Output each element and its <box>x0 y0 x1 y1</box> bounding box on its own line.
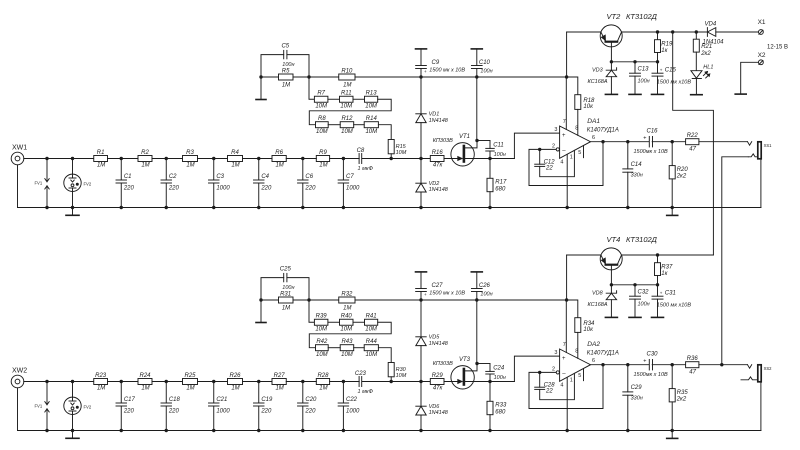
svg-text:220: 220 <box>304 408 316 414</box>
capacitor C21 1000 <box>213 382 215 404</box>
svg-text:1: 1 <box>570 154 573 160</box>
svg-text:1M: 1M <box>231 386 239 392</box>
svg-text:R32: R32 <box>341 292 353 298</box>
wire <box>330 158 360 160</box>
capacitor C18 220 <box>165 382 167 404</box>
resistor R13 10M <box>365 96 378 102</box>
svg-text:C11: C11 <box>493 143 504 149</box>
resistor R24 1M <box>138 379 152 385</box>
svg-text:1 мкФ: 1 мкФ <box>358 166 374 172</box>
capacitor C11 100н <box>477 140 490 142</box>
svg-text:1000: 1000 <box>216 408 230 414</box>
wire <box>108 158 139 160</box>
wire raw supply branch to channel 2 <box>673 32 714 255</box>
svg-text:VD5: VD5 <box>429 335 441 341</box>
svg-text:XW2: XW2 <box>12 368 27 375</box>
svg-text:C22: C22 <box>346 397 358 403</box>
svg-text:VD2: VD2 <box>429 181 440 187</box>
svg-text:47: 47 <box>689 146 696 152</box>
svg-text:C19: C19 <box>261 397 273 403</box>
svg-text:7: 7 <box>563 342 566 348</box>
svg-text:1N4148: 1N4148 <box>429 187 449 193</box>
arrester FV1 <box>46 382 48 405</box>
svg-text:FV1: FV1 <box>35 181 43 186</box>
svg-text:1500 мк х 10В: 1500 мк х 10В <box>429 291 465 297</box>
svg-text:C20: C20 <box>305 397 317 403</box>
diode VD5 1N4148 <box>420 300 422 337</box>
capacitor C27 1500 мк x 10В <box>416 271 427 273</box>
wire <box>108 381 139 383</box>
resistor R42 10M <box>316 345 329 351</box>
resistor R25 1M <box>183 379 198 385</box>
wire jack sleeve <box>760 159 762 208</box>
capacitor C23 1 мкФ <box>358 377 360 387</box>
svg-text:C18: C18 <box>169 397 181 403</box>
svg-text:C4: C4 <box>261 174 269 180</box>
terminal X2 <box>759 60 764 65</box>
wire <box>286 381 316 383</box>
svg-text:1M: 1M <box>231 163 239 169</box>
svg-text:VT4: VT4 <box>607 235 621 244</box>
svg-text:VD8: VD8 <box>592 291 604 297</box>
svg-text:5: 5 <box>578 150 581 156</box>
svg-text:100н: 100н <box>282 62 294 68</box>
svg-text:R23: R23 <box>95 373 107 379</box>
arrester FV1 <box>46 159 48 182</box>
svg-text:R7: R7 <box>317 91 325 97</box>
junction <box>120 206 123 209</box>
svg-text:R33: R33 <box>495 403 507 409</box>
svg-text:R3: R3 <box>186 150 194 156</box>
junction <box>488 429 491 432</box>
ground <box>72 208 74 215</box>
svg-text:1N4148: 1N4148 <box>429 410 449 416</box>
svg-text:100н: 100н <box>638 79 650 85</box>
wire <box>286 158 316 160</box>
svg-text:C32: C32 <box>638 290 650 296</box>
svg-text:1000: 1000 <box>346 408 360 414</box>
svg-text:C14: C14 <box>631 162 643 168</box>
capacitor C12 22 <box>539 149 541 164</box>
svg-text:КС168А: КС168А <box>588 79 608 85</box>
junction <box>419 429 422 432</box>
resistor R44 10M <box>364 345 378 351</box>
svg-text:1M: 1M <box>275 163 283 169</box>
svg-text:1M: 1M <box>282 82 290 88</box>
wire <box>152 381 183 383</box>
pin 7 <box>565 77 567 129</box>
capacitor C10 100н <box>471 48 482 50</box>
svg-text:4: 4 <box>560 159 563 165</box>
svg-text:100н: 100н <box>494 375 506 381</box>
resistor R4 1M <box>228 156 243 162</box>
transistor VT1 КП303В <box>451 143 474 166</box>
wire <box>72 192 74 208</box>
svg-text:R1: R1 <box>97 150 105 156</box>
svg-text:R17: R17 <box>495 180 507 186</box>
svg-text:R36: R36 <box>687 356 699 362</box>
svg-text:220: 220 <box>168 408 180 414</box>
svg-text:4: 4 <box>560 382 563 388</box>
capacitor C15 1500 мк x10В <box>657 62 659 73</box>
transistor VT3 КП303В <box>451 366 474 389</box>
resistor R2 1M <box>138 156 152 162</box>
wire <box>328 124 340 126</box>
svg-text:680: 680 <box>495 409 506 415</box>
ground <box>671 208 673 216</box>
svg-text:+: + <box>562 133 566 139</box>
node line <box>611 61 657 63</box>
junction <box>342 429 345 432</box>
resistor R35 2к2 <box>671 365 673 389</box>
svg-text:220: 220 <box>123 185 135 191</box>
svg-text:R8: R8 <box>318 116 326 122</box>
junction <box>212 429 215 432</box>
junction <box>257 429 260 432</box>
capacitor C22 1000 <box>342 382 344 404</box>
resistor R16 47к <box>430 156 444 162</box>
svg-text:100н: 100н <box>480 69 492 75</box>
svg-text:R26: R26 <box>229 373 241 379</box>
wire feedback loop <box>529 365 603 409</box>
diode VD2 1N4148 <box>420 159 422 184</box>
svg-text:C17: C17 <box>124 397 136 403</box>
wire jack sleeve <box>760 382 762 431</box>
svg-text:2: 2 <box>552 144 555 150</box>
svg-text:10M: 10M <box>365 352 377 358</box>
svg-text:1N4148: 1N4148 <box>429 118 449 124</box>
resistor R9 1M <box>316 156 329 162</box>
svg-text:1500мк х 10В: 1500мк х 10В <box>634 149 669 155</box>
svg-text:C24: C24 <box>493 366 505 372</box>
svg-text:C15: C15 <box>665 67 677 73</box>
svg-text:C23: C23 <box>355 371 367 377</box>
svg-text:R5: R5 <box>282 69 290 75</box>
wire <box>72 415 74 431</box>
LED HL1 <box>691 71 702 79</box>
svg-text:1M: 1M <box>343 305 351 311</box>
wire <box>328 321 340 323</box>
svg-text:+: + <box>643 359 646 365</box>
zener VD8 КС168А <box>610 285 612 293</box>
svg-text:3: 3 <box>554 127 557 133</box>
capacitor C13 100н <box>634 62 636 73</box>
svg-text:XS2: XS2 <box>764 366 773 371</box>
wire raw rail <box>567 254 601 256</box>
svg-text:R29: R29 <box>432 373 444 379</box>
svg-text:5: 5 <box>578 373 581 379</box>
svg-text:XS1: XS1 <box>764 143 773 148</box>
svg-text:VD6: VD6 <box>429 404 441 410</box>
resistor R21 2к2 <box>695 32 697 39</box>
svg-text:47: 47 <box>689 369 696 375</box>
svg-text:1500мк х 10В: 1500мк х 10В <box>634 372 669 378</box>
svg-text:VD1: VD1 <box>429 112 440 118</box>
svg-text:C9: C9 <box>432 60 440 66</box>
capacitor C9 1500 мк x 10В <box>416 48 427 50</box>
zener VD3 КС168А <box>610 62 612 70</box>
svg-text:22: 22 <box>545 166 553 172</box>
svg-text:10к: 10к <box>583 104 594 110</box>
svg-text:VT2: VT2 <box>607 12 622 21</box>
svg-text:7: 7 <box>563 119 566 125</box>
junction <box>671 429 674 432</box>
wire feedback loop <box>529 142 603 186</box>
svg-text:X2: X2 <box>758 52 766 59</box>
resistor R30 10M <box>388 363 394 377</box>
svg-text:FV2: FV2 <box>84 182 92 187</box>
svg-text:10M: 10M <box>365 103 377 109</box>
wire <box>378 348 391 363</box>
svg-text:220: 220 <box>260 185 272 191</box>
capacitor C20 220 <box>302 382 304 404</box>
svg-text:100н: 100н <box>494 152 506 158</box>
wire <box>198 381 228 383</box>
junction <box>165 206 168 209</box>
wire <box>652 141 685 143</box>
svg-text:220: 220 <box>304 185 316 191</box>
svg-text:DA1: DA1 <box>587 118 600 125</box>
svg-text:22: 22 <box>545 389 553 395</box>
svg-text:КС168А: КС168А <box>588 302 608 308</box>
arrester tube FV2 <box>72 382 74 398</box>
svg-text:C16: C16 <box>647 129 659 135</box>
wire <box>17 388 19 431</box>
resistor R39 10M <box>314 319 328 325</box>
pin 2 <box>540 371 557 373</box>
svg-text:VD4: VD4 <box>705 22 717 28</box>
wire <box>152 158 183 160</box>
svg-text:10M: 10M <box>365 326 377 332</box>
svg-text:+: + <box>643 136 646 142</box>
svg-text:220: 220 <box>123 408 135 414</box>
svg-text:680: 680 <box>495 186 506 192</box>
svg-text:47к: 47к <box>433 163 444 169</box>
svg-text:КП303В: КП303В <box>433 138 453 144</box>
resistor R12 10M <box>340 122 354 128</box>
svg-text:R10: R10 <box>341 69 353 75</box>
wire <box>699 141 748 143</box>
junction <box>419 206 422 209</box>
capacitor C24 100н <box>477 363 490 365</box>
svg-text:10M: 10M <box>396 373 407 379</box>
capacitor C32 100н <box>634 285 636 296</box>
svg-text:1500 мк х10В: 1500 мк х10В <box>657 302 692 308</box>
svg-text:100н: 100н <box>282 285 294 291</box>
diode VD4 1N4104 <box>706 28 708 37</box>
svg-text:VT3: VT3 <box>459 357 471 363</box>
junction <box>301 429 304 432</box>
wire reg rail <box>261 76 279 78</box>
resistor R32 1M <box>339 297 355 303</box>
capacitor C8 1 мкФ <box>358 154 360 164</box>
svg-text:FV2: FV2 <box>84 405 92 410</box>
svg-text:C13: C13 <box>638 67 650 73</box>
svg-text:C3: C3 <box>216 174 224 180</box>
svg-text:R19: R19 <box>661 41 673 47</box>
svg-text:220: 220 <box>260 408 272 414</box>
svg-text:1M: 1M <box>141 163 149 169</box>
capacitor C17 220 <box>120 382 122 404</box>
svg-text:+: + <box>424 292 427 297</box>
resistor R8 10M <box>316 122 329 128</box>
svg-text:47к: 47к <box>433 386 444 392</box>
svg-text:C10: C10 <box>479 60 491 66</box>
svg-text:10M: 10M <box>341 129 353 135</box>
svg-text:R9: R9 <box>319 150 327 156</box>
svg-text:R12: R12 <box>341 116 353 122</box>
svg-text:VT1: VT1 <box>459 134 470 140</box>
junction <box>165 429 168 432</box>
svg-text:HL1: HL1 <box>703 65 713 71</box>
resistor R43 10M <box>340 345 354 351</box>
svg-text:C25: C25 <box>280 267 292 273</box>
connector XS2 <box>748 365 752 369</box>
svg-text:КТ3102Д: КТ3102Д <box>626 235 658 244</box>
svg-text:12-15 В: 12-15 В <box>767 44 788 50</box>
wire node to pin 3 <box>490 381 514 383</box>
svg-text:1M: 1M <box>97 386 105 392</box>
connector XW1 <box>11 152 24 165</box>
svg-text:1500 мк х10В: 1500 мк х10В <box>657 79 692 85</box>
junction <box>342 206 345 209</box>
svg-text:R42: R42 <box>316 339 328 345</box>
wire node to pin 3 <box>490 158 514 160</box>
capacitor C2 220 <box>165 159 167 181</box>
transistor VT2 КТ3102Д <box>600 25 622 47</box>
svg-text:6: 6 <box>592 358 595 364</box>
svg-text:XW1: XW1 <box>12 145 27 152</box>
svg-text:1500 мк х 10В: 1500 мк х 10В <box>429 68 465 74</box>
capacitor C25 100н <box>261 278 284 300</box>
junction <box>301 206 304 209</box>
wire reg to rail <box>566 32 568 77</box>
connector XW2 <box>11 375 24 388</box>
pin 5 <box>583 369 585 381</box>
svg-text:330н: 330н <box>631 395 643 401</box>
junction <box>71 429 74 432</box>
svg-text:100н: 100н <box>480 292 492 298</box>
svg-text:R34: R34 <box>583 321 595 327</box>
resistor R23 1M <box>94 379 108 385</box>
wire reg rail <box>261 299 279 301</box>
resistor R37 1к <box>657 255 659 263</box>
pin 7 <box>565 300 567 352</box>
svg-text:1000: 1000 <box>346 185 360 191</box>
svg-text:10M: 10M <box>316 352 328 358</box>
capacitor C4 220 <box>258 159 260 181</box>
svg-text:+: + <box>660 67 663 72</box>
resistor R10 1M <box>339 74 355 80</box>
svg-text:220: 220 <box>168 185 180 191</box>
svg-text:C1: C1 <box>124 174 132 180</box>
svg-text:1M: 1M <box>319 163 327 169</box>
capacitor C19 220 <box>258 382 260 404</box>
svg-text:C29: C29 <box>631 385 643 391</box>
svg-text:C8: C8 <box>357 148 365 154</box>
resistor R7 10M <box>314 96 328 102</box>
resistor R5 1M <box>279 74 294 80</box>
svg-text:1: 1 <box>570 377 573 383</box>
svg-text:2к2: 2к2 <box>676 174 687 180</box>
resistor R3 1M <box>183 156 198 162</box>
wire <box>362 381 430 383</box>
svg-text:R16: R16 <box>432 150 444 156</box>
svg-text:1N4104: 1N4104 <box>703 39 725 45</box>
wire <box>243 158 273 160</box>
pin 2 <box>540 148 557 150</box>
svg-text:C21: C21 <box>216 397 227 403</box>
junction <box>212 206 215 209</box>
svg-text:2к2: 2к2 <box>676 397 687 403</box>
junction <box>257 206 260 209</box>
wire XS1 ring to channel 2 <box>748 154 758 157</box>
wire raw rail <box>567 31 601 33</box>
resistor R33 680 <box>489 382 491 402</box>
svg-text:C7: C7 <box>346 174 354 180</box>
wire <box>309 322 391 347</box>
svg-text:10к: 10к <box>583 327 594 333</box>
svg-text:R28: R28 <box>317 373 329 379</box>
wire <box>198 158 228 160</box>
resistor R34 10к <box>567 300 578 318</box>
pin 8 <box>577 332 579 358</box>
wire <box>309 300 314 322</box>
junction <box>45 206 48 209</box>
wire <box>378 125 391 140</box>
svg-text:КТ3102Д: КТ3102Д <box>626 12 658 21</box>
capacitor C6 220 <box>302 159 304 181</box>
svg-text:VD3: VD3 <box>592 68 604 74</box>
resistor R31 1M <box>279 297 294 303</box>
junction <box>626 206 629 209</box>
svg-text:R35: R35 <box>677 390 689 396</box>
capacitor C31 1500 мк x10В <box>657 285 659 296</box>
svg-text:R2: R2 <box>141 150 149 156</box>
svg-text:1M: 1M <box>343 82 351 88</box>
svg-text:1M: 1M <box>275 386 283 392</box>
svg-text:3: 3 <box>554 350 557 356</box>
svg-text:R18: R18 <box>583 98 595 104</box>
resistor R15 10M <box>388 140 394 154</box>
ground <box>260 77 262 99</box>
capacitor C14 330н <box>627 142 629 169</box>
svg-text:1M: 1M <box>141 386 149 392</box>
svg-text:R44: R44 <box>366 339 378 345</box>
svg-text:КП303В: КП303В <box>433 361 453 367</box>
svg-text:R6: R6 <box>275 150 283 156</box>
resistor R17 680 <box>489 159 491 179</box>
wire <box>24 158 94 160</box>
wire ground rail <box>18 207 761 209</box>
capacitor C28 22 <box>539 372 541 387</box>
resistor R20 2к2 <box>671 142 673 166</box>
svg-text:1000: 1000 <box>216 185 230 191</box>
op-amp DA1 К1407УД1А <box>560 126 591 158</box>
svg-text:R20: R20 <box>677 167 689 173</box>
resistor R22 47 <box>686 139 699 145</box>
svg-text:10M: 10M <box>340 326 352 332</box>
resistor R36 47 <box>686 362 699 368</box>
svg-text:+: + <box>562 356 566 362</box>
svg-text:R22: R22 <box>687 133 699 139</box>
wire <box>24 381 94 383</box>
wire <box>17 165 19 208</box>
svg-text:R43: R43 <box>341 339 353 345</box>
svg-text:R11: R11 <box>341 91 352 97</box>
wire <box>309 99 391 124</box>
connector XS1 <box>748 142 752 146</box>
